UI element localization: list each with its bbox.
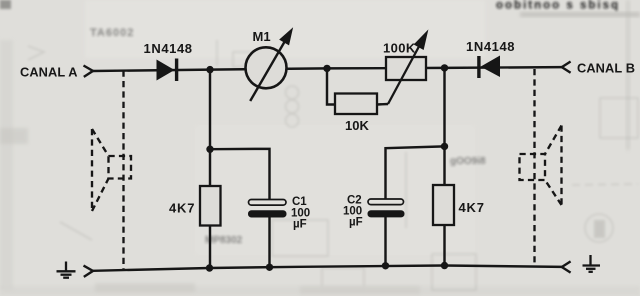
svg-text:µF: µF [293,219,307,231]
svg-text:1N4148: 1N4148 [144,41,193,56]
svg-text:4K7: 4K7 [169,201,195,216]
svg-text:4K7: 4K7 [459,200,485,215]
svg-text:µF: µF [349,217,363,229]
svg-text:M1: M1 [253,29,271,44]
svg-text:CANAL B: CANAL B [577,61,635,76]
svg-text:1N4148: 1N4148 [466,39,515,54]
svg-text:oobitnoo s sbisq: oobitnoo s sbisq [496,0,620,12]
svg-text:100K: 100K [383,41,416,56]
svg-text:C1: C1 [292,196,307,208]
svg-text:gOO9i8: gOO9i8 [450,156,486,167]
svg-text:TA6002: TA6002 [90,27,134,39]
svg-text:10K: 10K [345,118,369,133]
svg-text:CANAL A: CANAL A [20,65,78,80]
